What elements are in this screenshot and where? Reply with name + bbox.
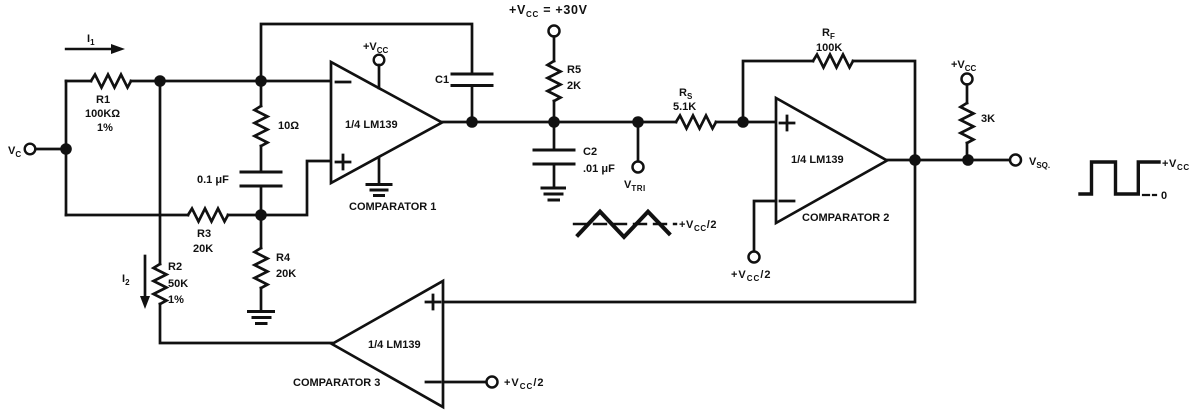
wire R3 node wire from Vc branch [66, 214, 188, 217]
wire 0.1uF to node C [260, 186, 263, 215]
svg-text:100K: 100K [816, 42, 842, 54]
svg-text:+VCC: +VCC [1162, 158, 1190, 172]
capacitor C2 .01uF [534, 146, 615, 175]
svg-text:20K: 20K [276, 268, 296, 280]
svg-text:RS: RS [679, 87, 693, 101]
svg-text:1/4 LM139: 1/4 LM139 [791, 154, 844, 166]
wire left vertical Vc branch [65, 81, 68, 215]
svg-text:COMPARATOR 2: COMPARATOR 2 [802, 212, 889, 224]
svg-text:VSQ.: VSQ. [1029, 156, 1050, 170]
svg-text:100KΩ: 100KΩ [85, 108, 120, 120]
node I 3K junction [962, 154, 974, 166]
svg-text:+VCC: +VCC [363, 41, 389, 55]
terminal Vtri [624, 122, 646, 193]
svg-text:1/4 LM139: 1/4 LM139 [345, 119, 398, 131]
resistor Rs 5.1K [673, 87, 716, 129]
wire comparator 1 output bus [442, 121, 676, 124]
resistor R4 20K [255, 248, 297, 288]
waveform icon triangle wave Vcc/2 [574, 212, 717, 237]
wire R4 branch [260, 215, 263, 248]
terminal +Vcc/2 of comparator 3 [487, 377, 545, 392]
wire node E to C2 [553, 122, 556, 150]
wire C1 to output node [471, 86, 474, 123]
node A R1/R2 junction [154, 75, 166, 87]
node B minus-node junction at 10-ohm branch [255, 75, 267, 87]
svg-text:RF: RF [822, 27, 835, 41]
node G Rf/plus-input junction [737, 116, 749, 128]
wire 10-ohm branch top [260, 81, 263, 106]
wire R4 to ground [260, 288, 263, 312]
resistor R2 50K 1% [154, 261, 189, 306]
resistor Rf 100K [813, 27, 853, 68]
svg-text:1/4 LM139: 1/4 LM139 [368, 339, 421, 351]
wire Rf right riser to output node [853, 61, 915, 160]
svg-text:1%: 1% [97, 122, 113, 134]
terminal Vsq [1010, 155, 1050, 171]
svg-text:C1: C1 [435, 74, 449, 86]
svg-text:10Ω: 10Ω [278, 120, 299, 132]
svg-text:R3: R3 [197, 228, 211, 240]
resistor R5 2K [548, 61, 582, 101]
wire 10-ohm to 0.1uF cap [260, 146, 263, 172]
node H output/feedback junction [909, 154, 921, 166]
svg-text:R2: R2 [168, 261, 182, 273]
svg-text:R1: R1 [96, 94, 110, 106]
wire R1 input segment [66, 80, 91, 83]
svg-text:+VCC = +30V: +VCC = +30V [509, 3, 588, 19]
svg-text:VTRI: VTRI [624, 179, 646, 193]
ground below R4 [249, 312, 274, 324]
svg-text:50K: 50K [168, 278, 188, 290]
wire comparator 3 minus input [443, 381, 487, 384]
current arrow I2 [122, 256, 150, 309]
wire comparator 2 minus input [754, 201, 776, 252]
node Vc junction [60, 143, 72, 155]
op-amp U1 comparator 1 [331, 62, 442, 213]
svg-text:0: 0 [1161, 190, 1167, 202]
wire R2 bottom to comparator 3 input [160, 304, 332, 343]
current arrow I1 [66, 33, 125, 54]
terminal +Vcc/2 of comparator 2 [731, 252, 772, 284]
node C R3/R4/cap junction [255, 209, 267, 221]
ground below C2 [542, 188, 565, 200]
wire C2 to ground [553, 164, 556, 188]
svg-text:+VCC: +VCC [951, 59, 977, 73]
svg-text:20K: 20K [193, 243, 213, 255]
wire R3 to plus input riser [228, 161, 331, 215]
wire vertical from node A down to R2 (crosses R3 wire) [159, 81, 162, 264]
op-amp U2 comparator 2 [776, 98, 889, 224]
node D C1/output junction [466, 116, 478, 128]
resistor 10 ohm [255, 106, 300, 146]
svg-text:+VCC/2: +VCC/2 [731, 269, 772, 283]
node F Vtri junction [632, 116, 644, 128]
wire Rs to comparator 2 plus input [716, 121, 776, 124]
resistor R1 100K 1% [85, 75, 131, 135]
wire R5 to node E [553, 101, 556, 122]
wire R1 to minus input of comparator 1 [131, 80, 331, 83]
svg-text:COMPARATOR 3: COMPARATOR 3 [293, 377, 380, 389]
svg-text:COMPARATOR 1: COMPARATOR 1 [349, 201, 436, 213]
terminal +Vcc = +30V [509, 3, 588, 61]
svg-text:3K: 3K [981, 113, 995, 125]
terminal Vc [8, 144, 66, 159]
resistor 3K pull-up [961, 103, 996, 143]
wire Rf feedback left riser [743, 61, 813, 122]
svg-text:I1: I1 [87, 33, 95, 47]
svg-text:0.1 μF: 0.1 μF [197, 174, 229, 186]
op-amp U3 comparator 3 [293, 281, 443, 407]
node E R5/C2 junction [548, 116, 560, 128]
svg-text:1%: 1% [168, 294, 184, 306]
svg-text:C2: C2 [583, 146, 597, 158]
svg-text:+VCC/2: +VCC/2 [679, 219, 717, 233]
svg-text:R5: R5 [567, 64, 581, 76]
terminal +Vcc of 3K pull-up [951, 59, 977, 103]
wire comparator 2 output [887, 159, 1010, 162]
svg-text:.01 μF: .01 μF [583, 163, 615, 175]
wire top feedback from node B to C1 [261, 24, 472, 81]
wire 3K to output [966, 143, 969, 160]
wire output down to comparator 3 plus input [443, 160, 915, 302]
svg-text:+VCC/2: +VCC/2 [504, 377, 545, 391]
capacitor C1 [435, 74, 492, 86]
svg-text:R4: R4 [276, 252, 291, 264]
terminal +Vcc of comparator 1 [363, 41, 389, 88]
resistor R3 20K [188, 209, 228, 256]
ground of comparator 1 [367, 158, 391, 196]
svg-text:5.1K: 5.1K [673, 101, 696, 113]
svg-text:2K: 2K [567, 80, 581, 92]
capacitor 0.1uF [197, 172, 281, 186]
svg-text:I2: I2 [122, 273, 130, 287]
svg-text:VC: VC [8, 145, 21, 159]
waveform icon square wave output [1080, 158, 1190, 202]
